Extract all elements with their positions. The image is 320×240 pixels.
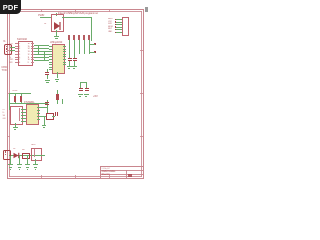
net label MISO — [68, 35, 69, 40]
ground g3 — [25, 163, 30, 166]
ground C7 — [45, 79, 50, 82]
wire K1 out — [40, 154, 45, 157]
wire drop g2 — [18, 156, 21, 164]
net label SCK — [78, 35, 79, 40]
ground C3 — [78, 93, 83, 96]
net label RST — [83, 35, 84, 40]
wire down to net labels — [90, 17, 93, 41]
title block text row3 — [102, 174, 110, 176]
capacitor C3 lead — [79, 82, 82, 88]
capacitor C2 — [73, 58, 77, 59]
IC2 body (yellow) — [52, 44, 65, 74]
capacitor C7 — [45, 72, 49, 73]
IC3 body (yellow) — [26, 104, 39, 125]
capacitor C3 — [79, 88, 83, 89]
diode D2 — [13, 152, 20, 159]
wire vertical net 1 — [68, 40, 71, 58]
wire top rail — [9, 92, 31, 95]
wire IC3 right vertical — [46, 100, 49, 113]
title block mark — [128, 174, 132, 177]
ground regulator — [54, 35, 59, 38]
title block text row1 — [102, 168, 110, 170]
junction dot stub2 — [94, 51, 95, 52]
IC1 pin text — [18, 43, 21, 65]
wire regulator top feed — [55, 13, 58, 16]
capacitor C6 — [55, 112, 56, 116]
wire bottom rail — [9, 154, 45, 157]
frame tick right — [140, 49, 143, 52]
label D1 — [44, 23, 46, 26]
wire R3 leads — [56, 90, 59, 94]
IC1 pins left — [15, 42, 18, 45]
wire drop g1 — [9, 156, 12, 164]
wire vertical net 5 — [88, 40, 91, 54]
net label VCC — [88, 35, 89, 40]
PDF badge — [0, 0, 21, 14]
wire vertical net 3 — [78, 40, 81, 54]
connector SV1 body — [122, 17, 130, 36]
wire vin to regulator — [40, 16, 51, 19]
wire stub right of R3 — [61, 99, 64, 104]
diode D1 — [53, 21, 61, 31]
wire top join caps — [80, 81, 87, 84]
ground C2 — [72, 65, 77, 68]
ground g4 — [33, 163, 38, 166]
SV1 pin dots — [115, 19, 116, 20]
resistor R1 — [14, 96, 17, 102]
wire left rail — [8, 93, 11, 110]
op-amp IC1 body — [18, 41, 33, 66]
wire IC2 bottom drop — [56, 72, 59, 78]
wire regulator out — [62, 16, 91, 19]
IC2 pins left — [49, 45, 52, 48]
ground C4 — [84, 93, 89, 96]
label R4 — [22, 149, 24, 152]
wire X1 to IC1 — [10, 46, 15, 49]
resistor R2 — [20, 96, 23, 102]
IC2 pins right — [63, 45, 66, 48]
frame tick left — [7, 49, 10, 52]
wire J2 drop — [14, 123, 17, 127]
top red title text — [58, 12, 100, 15]
connector X2 — [3, 150, 11, 160]
J2 pins to IC3 — [21, 108, 26, 111]
wire IC3 drop — [43, 116, 46, 125]
label D2 — [13, 148, 15, 151]
wire C7 drop — [46, 75, 49, 79]
wire drop g4 — [34, 159, 37, 165]
SV1 pins — [116, 18, 122, 21]
title block text row2 — [102, 171, 116, 173]
ground IC2 — [55, 78, 60, 81]
ground g2 — [17, 163, 22, 166]
net label MOSI — [73, 35, 74, 40]
ground J2 — [13, 126, 18, 129]
wire drop g3 — [26, 156, 29, 164]
wire stub right 2 — [89, 51, 95, 54]
frame outer border — [7, 8, 144, 11]
wire R1 leads — [14, 93, 17, 96]
connector X1 — [4, 44, 12, 55]
node +5V mark — [93, 95, 98, 98]
relay K1 box — [31, 148, 42, 161]
wire regulator gnd drop — [55, 30, 58, 36]
wire stub right 1 — [89, 43, 95, 46]
capacitor C7 lead — [46, 69, 49, 72]
crystal Q1 — [46, 113, 54, 121]
wire cap drops — [68, 61, 71, 66]
node labels left of IC1 — [10, 43, 13, 65]
ground g1 — [8, 163, 13, 166]
IC3 pins right — [37, 106, 40, 109]
IC1 label — [17, 38, 27, 41]
capacitor C4 lead — [85, 82, 88, 88]
title block frame — [99, 166, 102, 178]
IC2 label — [50, 41, 62, 44]
wire vertical net 2 — [73, 40, 76, 58]
connector J2 box — [10, 106, 23, 125]
capacitor C4 — [85, 88, 89, 89]
capacitor C5 — [45, 102, 49, 103]
resistor R3 — [56, 94, 59, 100]
top-right page mark — [145, 7, 148, 12]
ground C1 — [67, 65, 72, 68]
node VIN label — [38, 14, 44, 17]
wire bus IC1 to IC2 — [34, 44, 49, 47]
connector SV1 labels — [108, 18, 112, 34]
regulator IC5 box — [51, 14, 64, 32]
junction dot stub1 — [94, 43, 95, 44]
label X1 — [3, 40, 5, 43]
wire crystal leads — [40, 115, 46, 118]
wire vertical joins — [37, 45, 40, 54]
wire vertical net 4 — [83, 40, 86, 54]
label K1 — [31, 144, 35, 147]
frame tick bottom — [40, 175, 43, 178]
ground IC3 — [42, 124, 47, 127]
resistor R4 — [22, 153, 30, 159]
label J2 pins — [3, 109, 6, 121]
capacitor C1 — [68, 58, 72, 59]
wire mid rail — [9, 102, 47, 105]
frame tick top — [40, 9, 43, 12]
IC3 label — [24, 101, 34, 104]
wire IC3 right 1 — [40, 106, 47, 109]
IC1 pins right — [31, 42, 34, 45]
label R1 R2 — [13, 90, 18, 93]
wire R2 leads — [20, 93, 23, 96]
frame inner border — [9, 10, 142, 13]
